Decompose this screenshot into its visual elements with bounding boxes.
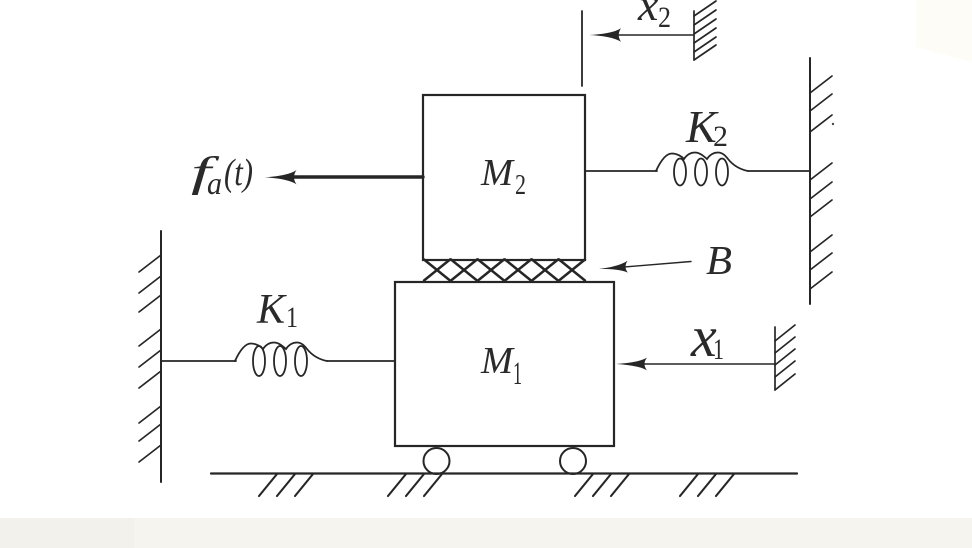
x1 arrowhead <box>616 358 647 371</box>
ground hatching <box>259 474 734 496</box>
svg-text:2: 2 <box>515 169 526 201</box>
x2 arrowhead <box>589 28 621 42</box>
svg-text:x: x <box>637 0 659 30</box>
spring K1 <box>235 343 327 377</box>
svg-text:1: 1 <box>713 333 724 366</box>
mass M1 box <box>395 282 614 446</box>
svg-text:B: B <box>706 237 732 283</box>
x1 reference wall <box>775 325 795 390</box>
roller right under M1 <box>560 448 586 474</box>
B pointer line <box>618 262 691 268</box>
wall left <box>139 231 161 482</box>
wire x2 arrow shaft <box>614 34 693 36</box>
svg-text:M: M <box>480 152 515 194</box>
svg-text:1: 1 <box>513 356 522 392</box>
scan tint top-right <box>916 0 972 62</box>
spring K2 <box>656 153 748 186</box>
scan speck <box>832 123 834 125</box>
wire spring K2 to wall <box>748 170 810 172</box>
force fa(t) arrow shaft <box>292 175 423 178</box>
svg-text:M: M <box>480 340 515 382</box>
scan tint bottom band <box>0 518 972 548</box>
x2 reference wall <box>694 1 716 60</box>
mass M2 box <box>423 95 585 260</box>
wall right <box>810 58 832 304</box>
svg-text:K: K <box>256 287 287 333</box>
roller left under M1 <box>424 448 450 474</box>
fa(t) arrowhead <box>265 170 297 184</box>
B arrowhead <box>599 261 629 275</box>
damper B friction pad (X lattice) <box>424 260 585 281</box>
node x2 reference line <box>581 11 583 86</box>
wire x1 arrow shaft <box>643 363 775 365</box>
svg-text:1: 1 <box>286 301 298 334</box>
wire wall to spring K1 <box>161 360 236 362</box>
svg-text:2: 2 <box>658 1 671 34</box>
svg-text:(t): (t) <box>224 152 253 194</box>
svg-text:2: 2 <box>713 120 728 153</box>
ground line <box>211 472 797 474</box>
wire spring K1 to M1 <box>327 360 395 362</box>
svg-text:a: a <box>207 165 222 201</box>
wire M2 to spring K2 <box>585 170 657 172</box>
